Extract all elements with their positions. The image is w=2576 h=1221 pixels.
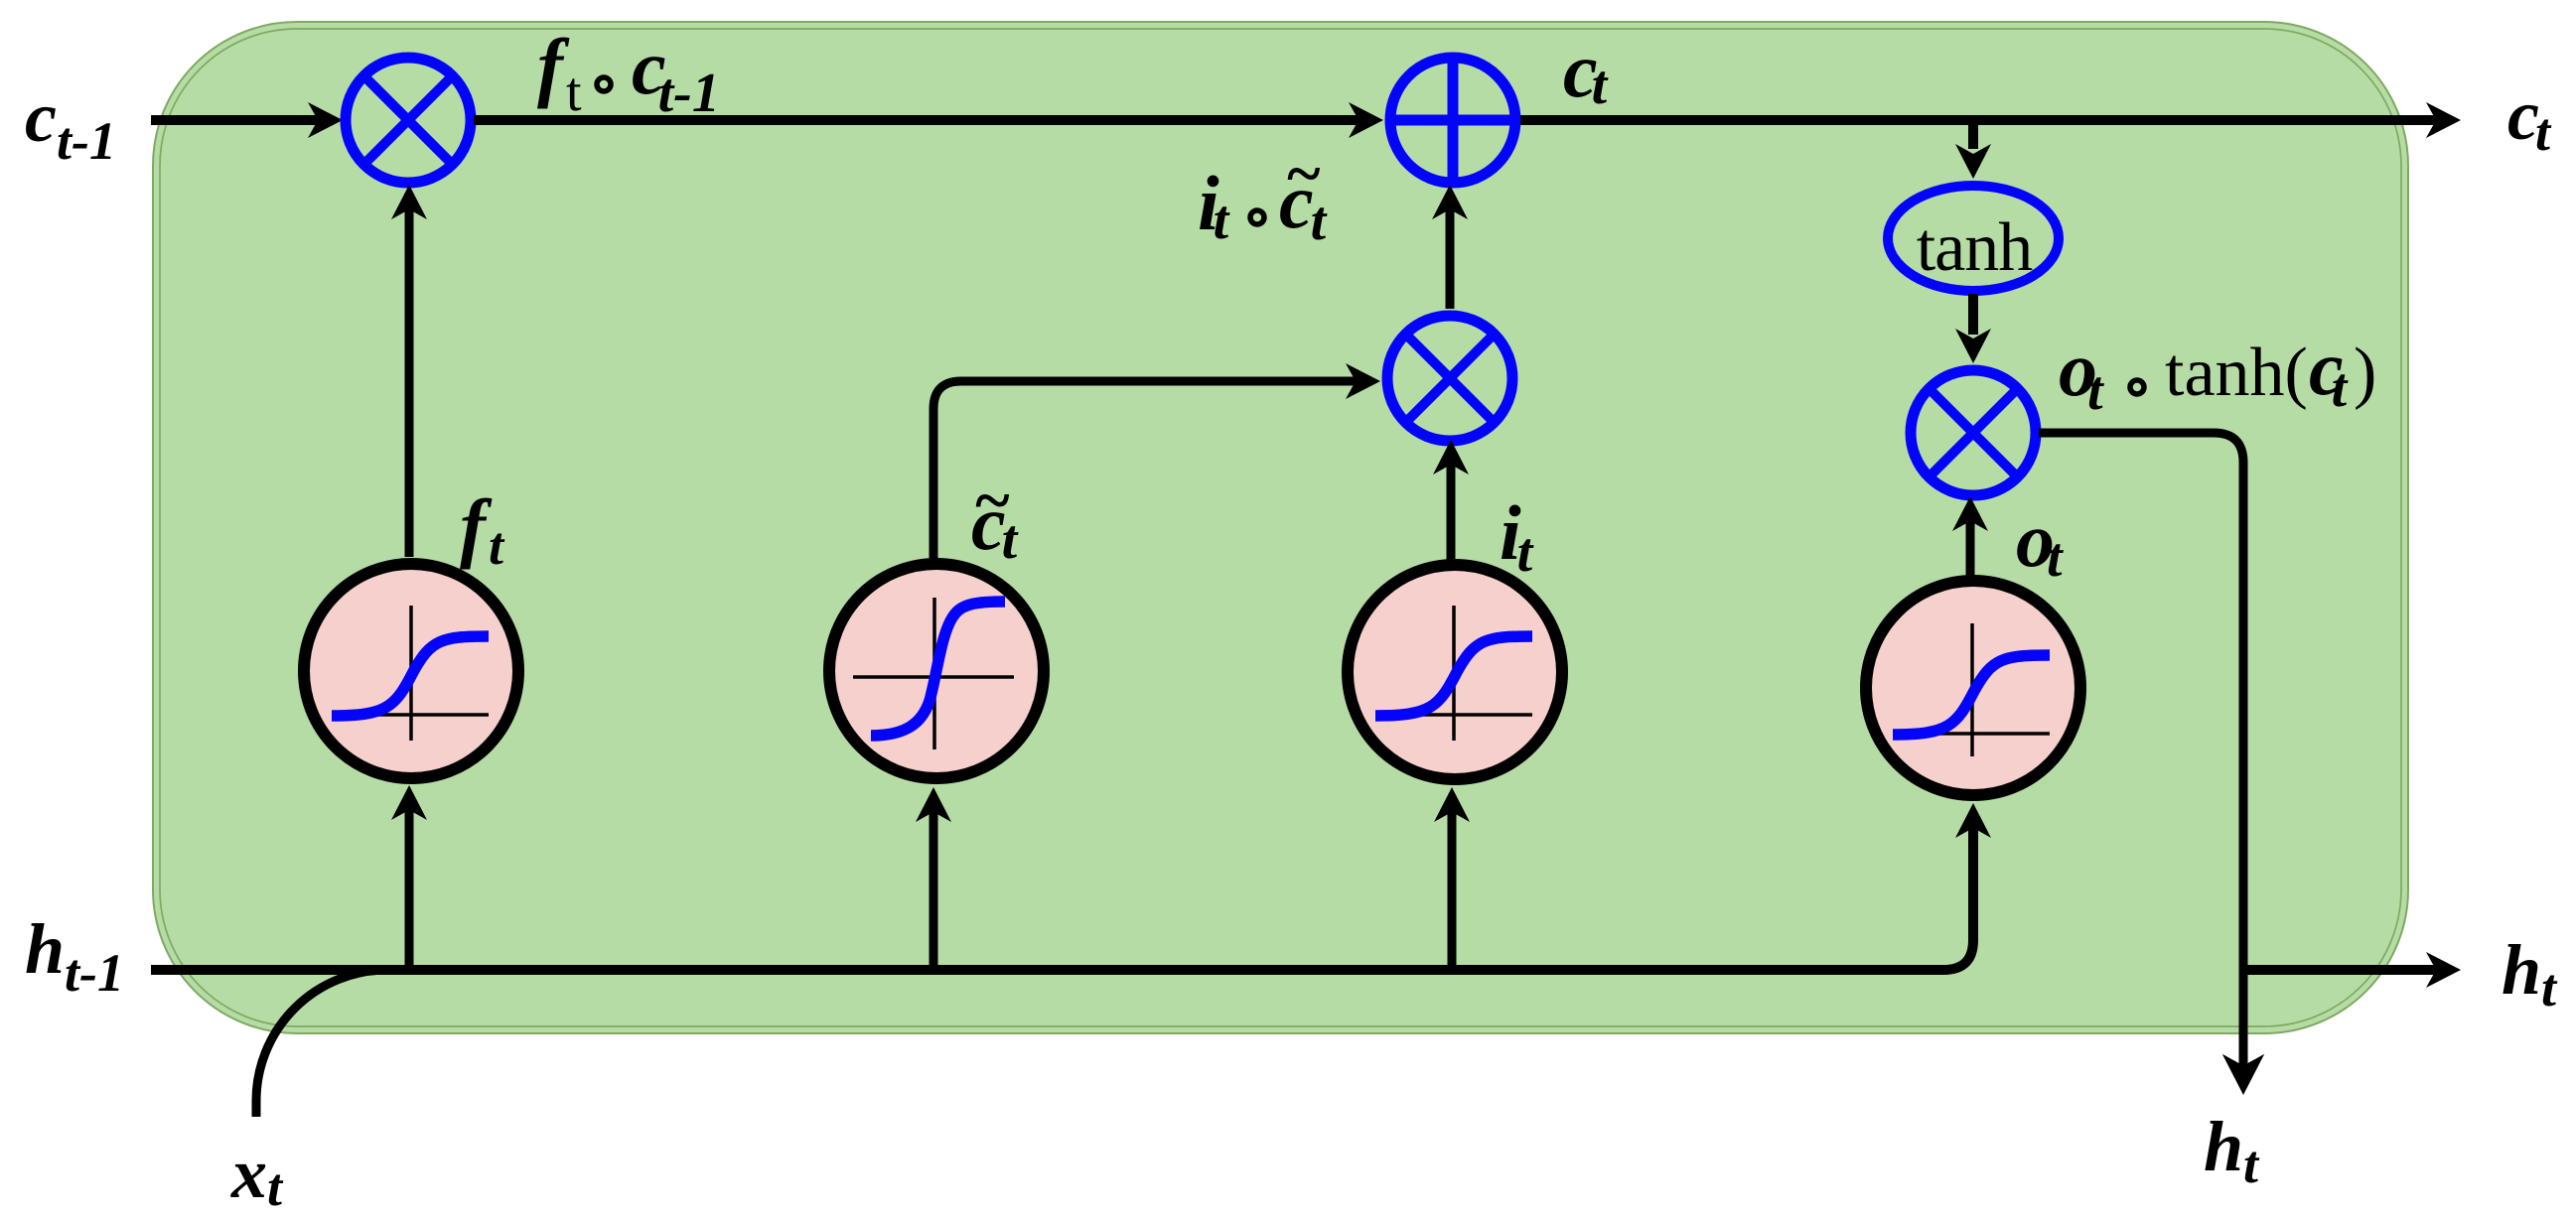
wire input product up to add node: [1432, 185, 1468, 309]
svg-text:xt: xt: [230, 1134, 284, 1217]
wire c_t output to the right: [1520, 102, 2461, 138]
LSTM cell body (green rounded rectangle): [153, 22, 2408, 1033]
tanh unit c~ (candidate): [829, 564, 1044, 778]
svg-text:ct: ct: [2309, 325, 2349, 419]
wire c~_t to input multiply node: [933, 363, 1380, 559]
wire h/x input up to sigmoid f: [391, 785, 427, 970]
sigmoid unit o (output gate): [1866, 581, 2080, 795]
multiply node (input gate product): [1387, 316, 1512, 441]
wire h/x input up to tanh unit c~: [916, 787, 951, 970]
label f_t o c_{t-1}: [537, 23, 720, 124]
svg-text:tanh(: tanh(: [2165, 335, 2308, 411]
svg-text:t: t: [489, 516, 505, 576]
svg-text:tanh: tanh: [1917, 209, 2034, 286]
svg-text:ht: ht: [2204, 1107, 2260, 1194]
wire i_t up to input multiply node: [1433, 440, 1469, 562]
svg-text:): ): [2354, 335, 2376, 411]
wire h_t output right: [2243, 952, 2461, 988]
multiply node (output product o_t * tanh(c_t)): [1911, 370, 2036, 495]
svg-text:ht: ht: [2502, 930, 2558, 1017]
wire output product right then down to h_t: [2039, 433, 2243, 1068]
label c~_t: [971, 465, 1019, 571]
wire x_t input curve: [256, 970, 387, 1117]
label i_t o c~_t: [1198, 138, 1328, 252]
tanh ellipse: [1888, 186, 2059, 291]
add node (new cell state sum): [1390, 58, 1515, 183]
sigmoid unit i (input gate): [1348, 565, 1562, 779]
wire h/x input up to sigmoid i: [1434, 787, 1470, 970]
wire f_t up to forget multiply node: [391, 185, 427, 557]
sigmoid unit f (forget gate): [304, 564, 518, 778]
arrowhead h_t down: [2222, 1054, 2264, 1095]
svg-text:ct: ct: [2507, 75, 2552, 162]
multiply node (forget gate product): [346, 58, 471, 183]
svg-text:ht-1: ht-1: [25, 909, 124, 1003]
svg-text:t: t: [566, 62, 582, 123]
label o_t o tanh(c_t): [2059, 325, 2376, 422]
wire tanh to output multiply node: [1955, 294, 1991, 363]
wire h_{t-1} input line with turn up into sigmoid o: [151, 803, 1991, 970]
wire branch down from c_t line to tanh: [1955, 120, 1991, 179]
wire c_{t-1} input: [151, 102, 343, 138]
svg-text:ct-1: ct-1: [25, 77, 116, 171]
wire f_t*c_{t-1} to add node: [474, 102, 1383, 138]
wire o_t up to output multiply node: [1952, 496, 1988, 576]
